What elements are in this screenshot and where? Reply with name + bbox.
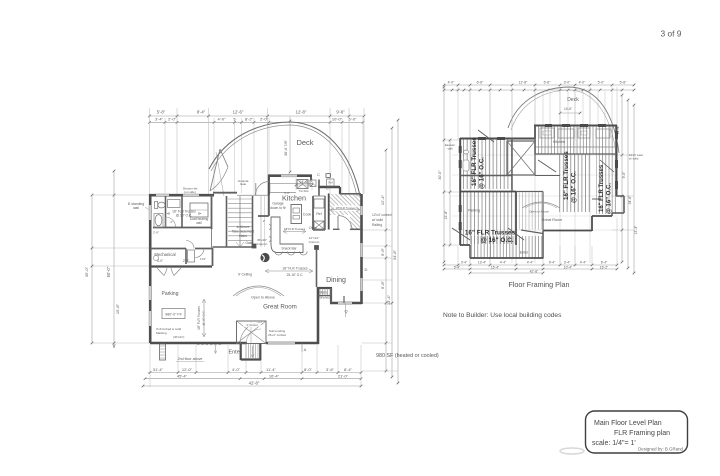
bathroom tub <box>154 214 163 228</box>
svg-text:14'-6": 14'-6" <box>564 107 572 111</box>
windows on outer walls <box>149 174 364 345</box>
svg-text:4'-0": 4'-0" <box>218 116 227 121</box>
patio truss note <box>330 206 360 212</box>
framing stairs x-box <box>507 141 535 175</box>
svg-text:34'-8": 34'-8" <box>628 195 632 204</box>
svg-text:12'-4": 12'-4" <box>380 194 385 205</box>
svg-text:4'-4": 4'-4" <box>580 260 587 264</box>
mechanical double doors <box>157 259 189 276</box>
note 8ft standing wall <box>128 202 152 212</box>
svg-text:12'-8": 12'-8" <box>296 110 307 115</box>
svg-text:12'-0": 12'-0" <box>182 367 193 372</box>
parking FF box <box>162 309 185 319</box>
stair notes <box>167 209 254 245</box>
svg-text:(on side): (on side) <box>184 190 196 194</box>
svg-text:Snack Bar: Snack Bar <box>281 247 297 251</box>
svg-text:4'-4": 4'-4" <box>527 260 534 264</box>
deck dims <box>284 117 313 191</box>
column markers C <box>317 173 330 190</box>
dim lines bottom of main plan <box>142 367 363 387</box>
column note kitchen left <box>252 238 268 248</box>
interior wall mech bottom <box>150 265 212 267</box>
svg-text:Great Room: Great Room <box>263 304 297 311</box>
svg-text:5'-4": 5'-4" <box>454 265 461 269</box>
svg-text:Column: Column <box>309 240 320 244</box>
svg-text:15'-8": 15'-8" <box>115 303 120 314</box>
extension lines bottom <box>150 345 361 387</box>
patio left wall <box>328 194 330 230</box>
svg-text:@ 16" O.C.: @ 16" O.C. <box>571 171 578 203</box>
svg-text:16" FLR Trusses: 16" FLR Trusses <box>599 164 605 212</box>
patio curb note <box>372 213 392 227</box>
svg-text:25+4" curbed: 25+4" curbed <box>268 333 286 337</box>
svg-text:Open to Above: Open to Above <box>529 210 549 214</box>
svg-text:4'-0": 4'-0" <box>232 367 241 372</box>
svg-text:3'-0": 3'-0" <box>564 80 572 84</box>
svg-text:6'-8": 6'-8" <box>477 80 485 84</box>
framing extension lines bottom <box>458 218 617 266</box>
svg-text:42'-8": 42'-8" <box>249 381 260 386</box>
svg-text:980'-0" FF: 980'-0" FF <box>165 313 182 317</box>
svg-text:Q: Q <box>344 309 347 314</box>
svg-text:Gate: Gate <box>240 182 247 186</box>
framing right note <box>629 153 643 161</box>
bathroom toilet <box>155 202 166 209</box>
svg-text:5'-0": 5'-0" <box>349 116 358 121</box>
svg-text:3'-4": 3'-4" <box>461 260 468 264</box>
water heater <box>153 231 206 262</box>
window seat box <box>297 180 308 189</box>
svg-text:to Above: to Above <box>237 225 250 229</box>
great room truss note <box>265 267 313 278</box>
svg-text:18"FLR Trusses: 18"FLR Trusses <box>336 206 357 210</box>
ceiling fan symbol <box>260 253 269 262</box>
svg-text:31'-4": 31'-4" <box>153 367 164 372</box>
svg-text:9'-6": 9'-6" <box>380 247 385 256</box>
framing hatch parking <box>460 192 515 244</box>
kitchen counter top <box>270 183 313 193</box>
main plan outer walls <box>149 176 362 361</box>
svg-text:16" FLR Trusses: 16" FLR Trusses <box>471 137 478 186</box>
svg-text:8'-4": 8'-4" <box>197 110 206 115</box>
parking truss arrow <box>197 299 206 337</box>
kitchen east cabinets wall <box>313 180 325 231</box>
svg-text:Great Room: Great Room <box>542 218 563 222</box>
svg-text:5'-8": 5'-8" <box>620 80 628 84</box>
svg-text:Ref: Ref <box>316 212 321 216</box>
svg-text:A: A <box>304 347 307 352</box>
svg-text:(40'x41'): (40'x41') <box>173 335 184 339</box>
svg-text:w/ solid: w/ solid <box>372 218 383 222</box>
kitchen west wall <box>258 195 269 216</box>
svg-text:4' Cutout: 4' Cutout <box>246 323 258 327</box>
framing great room label <box>529 210 562 223</box>
svg-text:35'-0": 35'-0" <box>84 266 89 277</box>
svg-text:wall: wall <box>448 147 453 151</box>
svg-text:9' Ceiling: 9' Ceiling <box>238 273 252 277</box>
svg-text:3 of 9: 3 of 9 <box>661 29 682 39</box>
svg-text:Oven: Oven <box>309 226 317 230</box>
svg-text:C: C <box>317 173 320 177</box>
svg-text:9'-4": 9'-4" <box>549 260 556 264</box>
closet shelf note <box>183 186 198 194</box>
svg-text:42'-8": 42'-8" <box>530 269 539 273</box>
basement stair walls near dining <box>318 288 331 303</box>
svg-text:13'-4": 13'-4" <box>478 260 487 264</box>
svg-text:25-16" O.C.: 25-16" O.C. <box>287 273 304 277</box>
parking curb note <box>156 327 184 339</box>
svg-text:16'-4": 16'-4" <box>269 373 280 378</box>
interior wall mech right <box>185 249 187 265</box>
interior wall bath bottom <box>153 227 212 229</box>
framing deck dim <box>559 107 582 114</box>
node A marker <box>302 343 307 352</box>
svg-text:15'-8": 15'-8" <box>444 210 448 219</box>
shower stall <box>190 203 208 217</box>
svg-text:10'-4": 10'-4" <box>564 265 573 269</box>
interior wall vertical x212 <box>212 195 213 266</box>
svg-text:8'-2": 8'-2" <box>245 116 254 121</box>
svg-text:36'-6 7/8": 36'-6 7/8" <box>284 139 288 156</box>
stair side walls <box>213 196 253 247</box>
svg-text:9'-6": 9'-6" <box>622 171 626 179</box>
svg-text:Enter: Enter <box>229 350 242 356</box>
patio door arc <box>338 216 352 230</box>
framing hatch kitchen top <box>535 126 617 154</box>
bar stools <box>269 224 307 255</box>
smudge mark <box>560 448 584 454</box>
framing hatch upper left <box>460 139 512 189</box>
svg-text:12'-6": 12'-6" <box>233 110 244 115</box>
svg-text:15'-4": 15'-4" <box>491 265 500 269</box>
truss label center rotated <box>563 151 578 203</box>
framing plan outer walls <box>460 126 624 259</box>
svg-text:C: C <box>326 187 329 191</box>
svg-text:Main Floor Level Plan: Main Floor Level Plan <box>594 420 662 427</box>
svg-text:4'-0": 4'-0" <box>284 191 290 195</box>
svg-text:4'-4": 4'-4" <box>500 260 507 264</box>
framing plan top dims <box>443 80 636 91</box>
truss label left rotated <box>471 137 486 189</box>
svg-text:w/ solid: w/ solid <box>629 157 639 161</box>
svg-text:Stairs: Stairs <box>319 291 328 295</box>
interior wall closet right <box>181 196 183 228</box>
interior wall bath right <box>165 196 167 227</box>
node Q marker <box>344 303 347 317</box>
svg-text:12'-8": 12'-8" <box>519 80 528 84</box>
svg-text:5'-8": 5'-8" <box>544 80 552 84</box>
svg-text:3'-4": 3'-4" <box>564 260 571 264</box>
framing elevator note <box>445 143 455 151</box>
svg-text:18" FLR Trusses: 18" FLR Trusses <box>197 306 201 330</box>
title block box <box>586 411 688 453</box>
framing hatch center <box>558 154 592 212</box>
hall door arc <box>186 241 194 249</box>
svg-text:Enter: Enter <box>520 251 529 255</box>
entry stairs fan <box>246 344 258 359</box>
svg-text:Column: Column <box>257 242 268 246</box>
svg-text:Floor Framing Plan: Floor Framing Plan <box>508 280 569 289</box>
dining shelves <box>319 296 344 304</box>
svg-text:down to flr: down to flr <box>270 206 287 210</box>
storage door arc <box>195 249 204 258</box>
main stairs treads <box>228 196 252 247</box>
svg-text:Parking: Parking <box>162 291 179 297</box>
svg-text:6'-8": 6'-8" <box>380 280 385 289</box>
svg-text:Dining: Dining <box>326 277 346 284</box>
landing rail <box>261 196 265 247</box>
svg-text:16'-2": 16'-2" <box>600 265 609 269</box>
svg-text:Take basement: Take basement <box>232 230 254 234</box>
node D marker <box>365 267 368 272</box>
svg-text:16" FLR Trusses: 16" FLR Trusses <box>563 151 570 200</box>
framing hall walls <box>516 192 543 231</box>
small dims kitchen <box>263 191 290 223</box>
framing interior grid lines <box>452 92 618 263</box>
svg-text:wall: wall <box>196 221 202 225</box>
framing hatch hall strip <box>517 193 542 230</box>
svg-text:Shelves: Shelves <box>319 296 331 300</box>
svg-text:50'-0": 50'-0" <box>106 266 111 277</box>
extension lines top <box>150 108 365 195</box>
svg-text:D: D <box>365 267 368 272</box>
svg-text:@ 16" O.C.: @ 16" O.C. <box>607 183 613 214</box>
svg-text:Garage: Garage <box>272 202 283 206</box>
svg-text:Open to Above: Open to Above <box>251 296 275 300</box>
svg-text:18" FLR Trusses: 18" FLR Trusses <box>282 267 307 271</box>
fridge upper <box>327 179 335 186</box>
curbed patio diagonal hatch <box>329 194 361 229</box>
svg-text:5'-8": 5'-8" <box>157 110 166 115</box>
deck stair wedge <box>210 149 228 196</box>
dim lines top of main plan <box>148 110 365 124</box>
svg-text:980 SF (heated or cooled): 980 SF (heated or cooled) <box>376 353 439 359</box>
svg-text:2nd floor above: 2nd floor above <box>178 357 203 361</box>
svg-text:12'x4' curbed: 12'x4' curbed <box>372 213 392 217</box>
deck arc main plan <box>209 122 360 196</box>
svg-text:34'-8": 34'-8" <box>392 249 397 260</box>
garage down note <box>270 202 287 211</box>
svg-text:11'-4": 11'-4" <box>266 367 276 372</box>
svg-text:Kitchen: Kitchen <box>553 140 565 144</box>
2nd floor above note <box>176 345 223 362</box>
patio bottom walls <box>333 228 361 230</box>
svg-text:Railing: Railing <box>372 223 382 227</box>
svg-text:5'-0": 5'-0" <box>598 80 606 84</box>
svg-text:18"FLR Trusses: 18"FLR Trusses <box>284 227 306 231</box>
truss label right rotated <box>599 164 613 214</box>
small cabinet diag <box>310 180 316 187</box>
svg-text:2'-6": 2'-6" <box>153 231 159 235</box>
svg-text:10'-0": 10'-0" <box>332 116 343 121</box>
framing hatch right column <box>596 154 617 214</box>
svg-text:16" FLR Trusses: 16" FLR Trusses <box>465 230 516 237</box>
svg-text:Deck: Deck <box>567 97 579 103</box>
svg-text:1'16": 1'16" <box>200 257 206 261</box>
svg-text:Marking: Marking <box>156 331 167 335</box>
framing hatch entry strip <box>470 236 542 258</box>
svg-text:8'-4": 8'-4" <box>344 367 353 372</box>
svg-text:Cook: Cook <box>303 213 312 217</box>
framing plan interior walls <box>460 126 616 245</box>
framing wall window nubs <box>460 126 616 231</box>
svg-text:@ 16" O.C.: @ 16" O.C. <box>479 157 486 189</box>
framing great room arch <box>522 202 560 208</box>
truss diag marks <box>452 130 614 240</box>
svg-text:4'-0": 4'-0" <box>579 80 587 84</box>
bath door arc <box>166 217 176 227</box>
storage box <box>188 250 195 262</box>
svg-text:3'-6": 3'-6" <box>326 367 335 372</box>
svg-text:6'-4": 6'-4" <box>601 260 608 264</box>
svg-text:Deck: Deck <box>296 138 313 147</box>
kitchen cook island <box>291 205 311 224</box>
svg-text:scale: 1/4"= 1': scale: 1/4"= 1' <box>592 440 636 447</box>
framing plan deck arc <box>508 87 619 153</box>
framing kitchen cabinets <box>535 128 616 147</box>
svg-text:@ 16" O.C.: @ 16" O.C. <box>480 237 513 244</box>
framing plan left dims <box>438 86 460 264</box>
svg-text:3'-4": 3'-4" <box>155 116 164 121</box>
entry stair box <box>237 321 287 344</box>
svg-text:2'-0": 2'-0" <box>168 116 177 121</box>
svg-text:30'-0": 30'-0" <box>438 170 442 180</box>
kitchen dining divider wall <box>316 250 318 287</box>
svg-text:13'-4": 13'-4" <box>634 225 638 234</box>
kitchen veranda door <box>238 179 269 195</box>
interior wall hall horizontal <box>150 248 213 250</box>
svg-text:Ref: Ref <box>328 181 332 185</box>
svg-text:8'-0": 8'-0" <box>304 367 313 372</box>
svg-text:@ 16" O.C.: @ 16" O.C. <box>202 310 206 325</box>
svg-text:stairs: stairs <box>239 234 247 238</box>
kitchen truss arrow <box>283 227 306 234</box>
framing bath fixtures <box>463 150 469 171</box>
truss label bottom horizontal <box>465 230 516 245</box>
svg-text:13'-4": 13'-4" <box>386 294 391 305</box>
closet shelf box <box>168 200 181 208</box>
svg-text:45'-4": 45'-4" <box>177 373 188 378</box>
framing plan right dims <box>612 94 638 275</box>
svg-text:21'-0": 21'-0" <box>338 373 349 378</box>
dim lines left of main plan <box>84 170 150 348</box>
dim lines right of main plan <box>362 119 399 385</box>
svg-text:Parking: Parking <box>468 209 480 213</box>
svg-text:FLR Framing plan: FLR Framing plan <box>614 430 670 437</box>
svg-text:9'-8": 9'-8" <box>336 110 345 115</box>
svg-text:2'-0": 2'-0" <box>183 259 189 263</box>
svg-text:wall: wall <box>133 206 139 210</box>
ceiling arch great room <box>233 273 284 297</box>
framing plan bottom dims <box>443 260 619 274</box>
kitchen column <box>309 236 320 250</box>
framing plan extension lines top <box>458 87 617 140</box>
svg-text:4'-0": 4'-0" <box>448 80 456 84</box>
svg-text:Note to Builder: Use local bui: Note to Builder: Use local building code… <box>443 312 562 319</box>
svg-text:Designed by: B.GRand: Designed by: B.GRand <box>638 447 683 452</box>
garage door post <box>160 344 166 360</box>
snack bar counter <box>271 217 303 253</box>
